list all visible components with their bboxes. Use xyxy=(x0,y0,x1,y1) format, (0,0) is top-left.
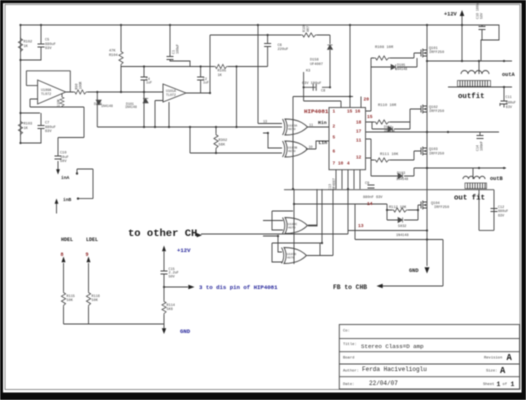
svg-text:18: 18 xyxy=(356,121,362,126)
svg-text:3 to dis pin of HIP4081: 3 to dis pin of HIP4081 xyxy=(199,284,278,291)
svg-text:TL072: TL072 xyxy=(166,93,176,97)
svg-text:R110 10R: R110 10R xyxy=(378,104,397,108)
svg-text:1: 1 xyxy=(511,381,515,388)
svg-text:63V: 63V xyxy=(498,214,505,218)
svg-text:Date:: Date: xyxy=(343,383,354,387)
svg-text:11: 11 xyxy=(356,139,362,144)
svg-text:D103: D103 xyxy=(397,172,405,176)
svg-text:14: 14 xyxy=(367,201,373,207)
svg-text:C9: C9 xyxy=(365,182,369,186)
svg-text:UF4007: UF4007 xyxy=(332,178,336,190)
svg-text:LDEL: LDEL xyxy=(86,237,98,243)
svg-text:FB to CHB: FB to CHB xyxy=(333,284,367,291)
svg-text:Q102: Q102 xyxy=(429,106,438,110)
svg-text:HIP4081: HIP4081 xyxy=(304,108,329,115)
svg-text:4R7: 4R7 xyxy=(306,26,310,32)
svg-text:out fit: out fit xyxy=(454,195,485,203)
svg-text:A: A xyxy=(500,366,506,376)
svg-text:1N4148: 1N4148 xyxy=(101,104,113,108)
svg-text:15: 15 xyxy=(367,114,373,120)
svg-text:outA: outA xyxy=(502,72,516,78)
svg-text:50V: 50V xyxy=(480,13,484,19)
svg-text:10: 10 xyxy=(338,162,344,167)
svg-text:Sheet: Sheet xyxy=(483,382,494,387)
svg-text:R112 10K: R112 10K xyxy=(389,206,407,210)
svg-text:1N4148: 1N4148 xyxy=(396,234,409,238)
svg-text:4070: 4070 xyxy=(287,255,295,259)
svg-text:IRFF250: IRFF250 xyxy=(434,206,449,210)
svg-text:100uF: 100uF xyxy=(176,44,180,54)
svg-text:R111 10K: R111 10K xyxy=(380,153,399,157)
svg-text:1: 1 xyxy=(333,110,336,115)
svg-text:880uF: 880uF xyxy=(506,102,516,106)
svg-text:+12V: +12V xyxy=(444,11,458,17)
svg-text:Revision: Revision xyxy=(484,355,502,360)
svg-text:12: 12 xyxy=(356,156,362,161)
svg-text:5032: 5032 xyxy=(398,225,406,229)
svg-text:inB: inB xyxy=(63,197,72,203)
svg-text:4070: 4070 xyxy=(288,149,296,153)
svg-text:IRFF250: IRFF250 xyxy=(429,110,444,114)
svg-text:1N4148: 1N4148 xyxy=(396,178,408,182)
svg-text:16: 16 xyxy=(355,110,361,115)
svg-text:4070: 4070 xyxy=(288,127,296,131)
svg-text:Stereo Class=D amp: Stereo Class=D amp xyxy=(361,343,424,350)
svg-text:220uF: 220uF xyxy=(278,48,289,52)
svg-text:63V: 63V xyxy=(45,130,52,134)
svg-text:to other CH: to other CH xyxy=(128,228,197,240)
svg-text:D104: D104 xyxy=(384,125,392,129)
svg-text:C8: C8 xyxy=(321,90,325,94)
svg-text:Hin: Hin xyxy=(318,120,327,126)
svg-text:4070: 4070 xyxy=(288,225,296,229)
svg-text:Q104: Q104 xyxy=(431,202,440,206)
svg-text:100nF: 100nF xyxy=(480,141,484,151)
svg-text:UF4007: UF4007 xyxy=(310,63,323,67)
svg-text:outB: outB xyxy=(490,176,504,182)
svg-text:63V: 63V xyxy=(506,106,513,110)
svg-text:110K: 110K xyxy=(57,99,61,107)
svg-text:56K: 56K xyxy=(219,143,226,147)
svg-text:880nF 63V: 880nF 63V xyxy=(363,196,383,200)
svg-text:50K: 50K xyxy=(67,299,74,303)
svg-text:Title:: Title: xyxy=(343,342,357,347)
svg-text:8: 8 xyxy=(61,252,64,258)
svg-text:50V: 50V xyxy=(169,275,176,279)
svg-text:9: 9 xyxy=(86,252,89,258)
svg-text:IRFF250: IRFF250 xyxy=(429,153,444,157)
svg-text:Q101: Q101 xyxy=(429,47,438,51)
svg-text:15: 15 xyxy=(347,110,353,115)
svg-text:17: 17 xyxy=(356,130,362,135)
svg-text:IRFF250: IRFF250 xyxy=(429,51,444,55)
svg-text:1uF: 1uF xyxy=(146,81,152,85)
svg-text:2: 2 xyxy=(333,125,336,130)
svg-text:A: A xyxy=(507,353,513,363)
svg-text:HDEL: HDEL xyxy=(61,237,73,243)
svg-text:+12V: +12V xyxy=(177,247,191,254)
svg-text:6: 6 xyxy=(333,150,336,155)
svg-text:63V 100uF: 63V 100uF xyxy=(302,82,321,86)
svg-text:100R: 100R xyxy=(79,82,83,90)
svg-text:Author:: Author: xyxy=(343,369,359,374)
svg-text:R108 10R: R108 10R xyxy=(375,46,394,50)
svg-text:63V: 63V xyxy=(45,47,52,51)
svg-text:5: 5 xyxy=(333,136,336,141)
svg-text:K3: K3 xyxy=(306,70,310,74)
svg-text:inA: inA xyxy=(61,175,70,181)
svg-text:5K6: 5K6 xyxy=(167,308,173,312)
svg-text:Lin: Lin xyxy=(319,140,328,146)
svg-text:10: 10 xyxy=(309,146,313,150)
svg-text:20: 20 xyxy=(364,97,370,103)
svg-text:4: 4 xyxy=(347,162,350,167)
svg-text:GND: GND xyxy=(409,268,419,274)
svg-text:Ferda Hacivelioglu: Ferda Hacivelioglu xyxy=(362,366,427,373)
svg-text:1N4148: 1N4148 xyxy=(125,105,137,109)
svg-text:22/04/07: 22/04/07 xyxy=(369,380,398,387)
svg-text:13: 13 xyxy=(263,121,267,125)
svg-text:Size:: Size: xyxy=(486,369,497,374)
svg-text:11: 11 xyxy=(309,124,313,128)
svg-text:1uF: 1uF xyxy=(203,81,209,85)
svg-text:Q103: Q103 xyxy=(429,148,438,152)
svg-text:Board: Board xyxy=(343,355,354,360)
svg-text:1N4148: 1N4148 xyxy=(395,68,407,72)
svg-text:GND: GND xyxy=(180,328,191,335)
svg-text:50K: 50K xyxy=(92,299,99,303)
svg-text:TL072: TL072 xyxy=(41,93,51,97)
svg-text:outfit: outfit xyxy=(458,93,485,101)
svg-text:50V: 50V xyxy=(60,160,67,164)
svg-text:7: 7 xyxy=(333,162,336,167)
svg-text:R104: R104 xyxy=(109,54,118,58)
svg-text:1N4148: 1N4148 xyxy=(384,130,395,133)
svg-text:1: 1 xyxy=(497,381,501,388)
svg-text:Co:: Co: xyxy=(343,330,350,334)
svg-text:of: of xyxy=(503,382,508,387)
svg-text:13: 13 xyxy=(358,223,364,229)
svg-text:C11: C11 xyxy=(506,96,512,100)
